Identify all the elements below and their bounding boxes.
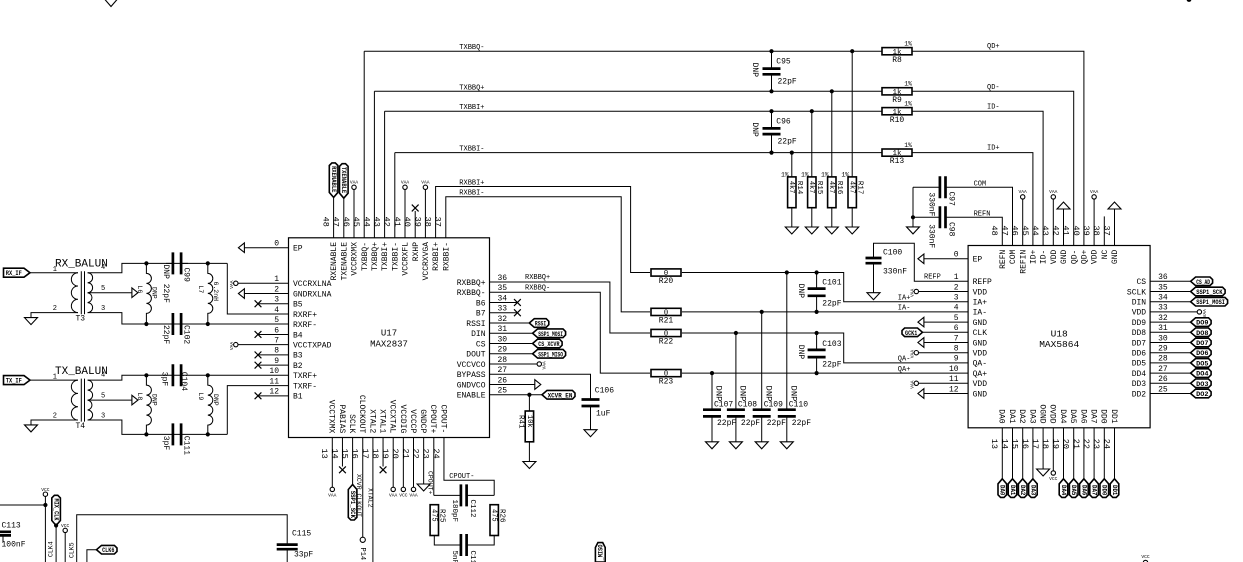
- junction: [769, 109, 773, 113]
- svg-text:8: 8: [954, 345, 959, 354]
- svg-text:C114: C114: [468, 551, 476, 562]
- net tag TXENABLE: [340, 164, 349, 199]
- svg-text:39: 39: [412, 217, 422, 227]
- svg-text:SSP1_MOSI: SSP1_MOSI: [538, 331, 563, 339]
- svg-text:VDD: VDD: [973, 350, 988, 359]
- resistor R25 475: [430, 505, 438, 536]
- svg-text:GNDVCO: GNDVCO: [457, 381, 486, 390]
- no-connect pin14: [339, 466, 346, 473]
- net tag DA6: [1080, 479, 1089, 498]
- svg-text:DNP: DNP: [714, 386, 723, 402]
- wire net ID+: [912, 153, 1033, 246]
- svg-text:VAA: VAA: [389, 493, 398, 499]
- wire stub pin40 RXHP: [414, 211, 416, 238]
- svg-text:RXBBI-: RXBBI-: [459, 190, 484, 198]
- net tag SSP1_MISO: [533, 349, 566, 358]
- wire stub pin3: [258, 303, 289, 305]
- svg-text:VCCVCO: VCCVCO: [457, 361, 486, 370]
- wire: [912, 217, 914, 227]
- junction: [760, 310, 764, 314]
- svg-text:SCLK: SCLK: [1127, 288, 1146, 297]
- svg-text:22pF: 22pF: [741, 419, 760, 428]
- svg-text:5: 5: [954, 314, 959, 323]
- wire pin20 DA5: [1073, 428, 1075, 479]
- port TX_IF: [4, 376, 31, 385]
- wire RX_IF to T3 pin1: [30, 272, 78, 274]
- wire stub pin34 B6: [490, 302, 518, 304]
- svg-text:24: 24: [431, 449, 441, 459]
- svg-text:B5: B5: [293, 301, 303, 310]
- svg-text:QA-: QA-: [898, 356, 911, 364]
- wire: [811, 111, 813, 177]
- svg-text:TXBBI+: TXBBI+: [459, 104, 484, 112]
- wire pin20 VCCDIG: [402, 438, 404, 488]
- loop filter node wires: [434, 494, 461, 496]
- svg-text:GND: GND: [973, 390, 988, 399]
- wire pin35 SCLK: [1150, 291, 1191, 293]
- svg-text:TXBBQ-: TXBBQ-: [361, 242, 370, 271]
- svg-text:XTAL2: XTAL2: [366, 488, 373, 508]
- wire R25 bottom: [434, 536, 461, 546]
- svg-text:6: 6: [274, 326, 279, 335]
- svg-text:4k7: 4k7: [848, 181, 856, 194]
- svg-text:13: 13: [319, 449, 329, 459]
- svg-text:RXBBQ+: RXBBQ+: [457, 279, 486, 288]
- resistor R13 1k: [882, 149, 912, 156]
- ground arrow at T3 pin5: [132, 288, 138, 298]
- svg-text:CPOUT-: CPOUT-: [438, 404, 447, 433]
- wire pin2 GNDRXLNA: [244, 293, 288, 295]
- svg-text:VAA: VAA: [541, 361, 547, 370]
- svg-text:GND: GND: [973, 339, 988, 348]
- svg-text:17: 17: [1030, 439, 1040, 449]
- svg-text:R22: R22: [659, 338, 674, 347]
- svg-text:XTAL1: XTAL1: [377, 409, 386, 433]
- svg-text:VCCRXFL: VCCRXFL: [402, 242, 411, 276]
- svg-text:VCCRXMX: VCCRXMX: [351, 242, 360, 276]
- svg-text:VCC: VCC: [399, 493, 408, 499]
- svg-text:R16: R16: [835, 181, 843, 195]
- capacitor C103 DNP 22pF: [816, 333, 818, 350]
- svg-text:GND: GND: [1111, 250, 1120, 265]
- svg-text:TXBBI+: TXBBI+: [381, 242, 390, 271]
- wire stub pin8: [258, 354, 289, 356]
- power VAA U18 pin46: [1021, 195, 1025, 199]
- svg-text:4k7: 4k7: [827, 181, 835, 194]
- wire pin22 DA7: [1093, 428, 1095, 479]
- svg-text:XCVR_EN: XCVR_EN: [548, 392, 573, 400]
- svg-text:15: 15: [339, 449, 349, 459]
- net tag CLK6: [87, 550, 97, 562]
- svg-text:DD8: DD8: [1132, 329, 1147, 338]
- wire pin23 CPOUT+: [433, 438, 435, 496]
- wire pin28 DD5: [1150, 362, 1191, 364]
- transformer T4 secondary winding: [88, 380, 93, 420]
- svg-text:TX_BALUN: TX_BALUN: [55, 366, 108, 378]
- wire pin6 CLK: [923, 331, 969, 333]
- svg-text:QA+: QA+: [898, 366, 911, 374]
- svg-text:DNP: DNP: [796, 345, 805, 360]
- svg-text:CLK6: CLK6: [102, 547, 115, 554]
- wire pin22 GNDCP: [423, 438, 425, 485]
- wire pin39 VCCRXVGA: [424, 190, 426, 238]
- wire pin25 DD2: [1150, 393, 1191, 395]
- ground under C100: [867, 293, 880, 300]
- svg-text:DD6: DD6: [1132, 350, 1147, 359]
- svg-text:XTAL2: XTAL2: [367, 409, 376, 433]
- svg-text:29: 29: [1158, 345, 1168, 354]
- junction at MIX_CLK tip: [54, 523, 58, 527]
- svg-text:GND: GND: [973, 319, 988, 328]
- svg-text:22pF: 22pF: [822, 299, 841, 308]
- svg-text:DNP: DNP: [750, 63, 759, 78]
- wire pin18 OVDD: [1052, 428, 1054, 471]
- svg-text:C100: C100: [883, 248, 902, 257]
- svg-text:XCVR_CLKOUT: XCVR_CLKOUT: [355, 474, 362, 517]
- svg-text:C115: C115: [292, 529, 311, 538]
- svg-text:CS_AD: CS_AD: [1196, 279, 1210, 286]
- svg-text:QD+: QD+: [987, 43, 1000, 51]
- wire stub pin9: [258, 364, 289, 366]
- capacitor C96 DNP 22pF: [771, 111, 773, 128]
- ground at pin26: [535, 380, 541, 390]
- wire net RXBBQ-: [490, 292, 651, 373]
- svg-text:DO9: DO9: [1196, 320, 1209, 327]
- junction: [785, 270, 789, 274]
- wire EP pin 0: [244, 247, 288, 249]
- svg-text:QA+: QA+: [973, 370, 988, 379]
- wire pin44 riser TXBBQ+: [373, 91, 375, 238]
- wire: [851, 51, 853, 177]
- svg-text:3: 3: [274, 296, 279, 305]
- wire: [528, 395, 530, 411]
- svg-text:R13: R13: [890, 157, 905, 166]
- net tag RSSI: [529, 319, 549, 328]
- svg-text:EP: EP: [973, 256, 983, 265]
- svg-text:26: 26: [1158, 375, 1168, 384]
- svg-text:1%: 1%: [904, 41, 912, 48]
- svg-text:GNDRXLNA: GNDRXLNA: [293, 290, 332, 299]
- resistor R23 0ohm: [651, 370, 681, 377]
- svg-text:4: 4: [101, 372, 105, 380]
- svg-text:4: 4: [274, 306, 279, 315]
- svg-text:33: 33: [1158, 304, 1168, 313]
- svg-text:REFP: REFP: [924, 274, 941, 282]
- svg-text:19: 19: [1050, 439, 1060, 449]
- transformer T3 secondary winding: [88, 273, 93, 313]
- wire net RXBBI-: [446, 197, 650, 312]
- svg-text:25: 25: [1158, 385, 1168, 394]
- ground under C108: [729, 442, 742, 449]
- wire net RXBBI+: [436, 187, 650, 273]
- svg-text:330nF: 330nF: [926, 224, 935, 248]
- net tag DA4: [1059, 479, 1068, 498]
- svg-text:DNP 22pF: DNP 22pF: [161, 265, 170, 304]
- svg-text:VDD: VDD: [1091, 250, 1100, 265]
- svg-text:2: 2: [53, 305, 57, 313]
- svg-text:IA-: IA-: [973, 309, 987, 318]
- wire T3 pin4 / RX top rail: [88, 263, 228, 272]
- svg-text:DO7: DO7: [1196, 340, 1209, 347]
- svg-text:24: 24: [1101, 439, 1111, 449]
- svg-text:OVDD: OVDD: [1048, 404, 1057, 423]
- svg-text:47: 47: [999, 226, 1009, 236]
- wire net CLK4: [55, 526, 57, 562]
- svg-text:VAA: VAA: [328, 493, 337, 499]
- net tag CS_XCVR: [533, 339, 563, 348]
- ground at U18 pin7: [918, 338, 924, 348]
- resistor R21 0ohm: [651, 308, 681, 315]
- wire pin17 OGND: [1042, 428, 1044, 469]
- svg-text:C112: C112: [468, 500, 476, 518]
- junction: [144, 322, 148, 326]
- svg-text:18: 18: [1040, 439, 1050, 449]
- svg-text:43: 43: [1040, 226, 1050, 236]
- svg-text:VAA: VAA: [229, 280, 235, 289]
- power VAA pin41: [403, 185, 407, 189]
- wire: [286, 549, 288, 562]
- svg-text:ID-: ID-: [987, 104, 1000, 112]
- ground at pin22: [417, 484, 430, 491]
- wire pin29 DOUT: [490, 353, 533, 355]
- wire R21 to IA-: [682, 311, 968, 313]
- svg-text:2: 2: [53, 413, 57, 421]
- svg-text:TXRF-: TXRF-: [293, 382, 317, 391]
- wire pin1 VCCRXLNA: [238, 282, 289, 284]
- svg-text:VCCTXPAD: VCCTXPAD: [293, 341, 332, 350]
- svg-text:DO4: DO4: [1196, 371, 1209, 378]
- svg-text:TXBBI-: TXBBI-: [391, 242, 400, 271]
- wire stub pin14: [341, 438, 343, 467]
- svg-text:29: 29: [498, 346, 508, 355]
- net tag DD6: [1191, 348, 1212, 357]
- wire pin14 DA1: [1012, 428, 1014, 479]
- svg-text:22pF: 22pF: [161, 325, 170, 344]
- svg-text:DA5: DA5: [1068, 409, 1077, 424]
- power VAA U18 pin39: [1092, 195, 1096, 199]
- svg-text:DA1: DA1: [1007, 409, 1016, 424]
- svg-text:R9: R9: [892, 96, 902, 105]
- wire TX_IF to T4 pin1: [30, 379, 78, 381]
- svg-text:VAA: VAA: [401, 179, 410, 185]
- inductor L6 DNP: [146, 263, 151, 324]
- svg-text:DO8: DO8: [1196, 330, 1209, 337]
- ground at U18 pin17: [1037, 469, 1050, 476]
- net tag SSP1_MOSI right: [1191, 297, 1228, 306]
- wire net TXBBQ+ row: [374, 90, 882, 92]
- net tag DA2: [1018, 479, 1027, 498]
- svg-text:VCCTXMX: VCCTXMX: [327, 400, 336, 434]
- svg-text:27: 27: [498, 366, 508, 375]
- svg-text:DA3: DA3: [1029, 485, 1036, 496]
- svg-text:330nF: 330nF: [926, 192, 935, 216]
- svg-text:R8: R8: [892, 56, 902, 65]
- svg-text:DOUT: DOUT: [466, 351, 485, 360]
- power VAA U18 pin43: [1051, 195, 1055, 199]
- net tag DD4: [1191, 369, 1212, 378]
- svg-text:TXBBQ+: TXBBQ+: [459, 84, 484, 92]
- wire pin30 CS: [490, 343, 533, 345]
- svg-text:DA4: DA4: [1060, 485, 1067, 496]
- svg-text:TXRF+: TXRF+: [293, 372, 317, 381]
- ground at U17 EP: [238, 243, 244, 253]
- wire pin48: [333, 197, 335, 237]
- net tag GCK1: [902, 328, 923, 337]
- svg-text:MAX5864: MAX5864: [1039, 339, 1079, 350]
- svg-text:B1: B1: [293, 393, 303, 402]
- svg-text:R26: R26: [497, 509, 505, 523]
- ground under R17: [846, 227, 859, 234]
- wire pin7 VCCTXPAD: [238, 344, 289, 346]
- svg-text:4k7: 4k7: [787, 181, 795, 194]
- svg-text:475: 475: [430, 509, 438, 522]
- svg-text:DIN: DIN: [471, 330, 486, 339]
- svg-text:SSP1_SCK: SSP1_SCK: [1196, 289, 1223, 297]
- svg-text:9: 9: [954, 355, 959, 364]
- svg-text:DA0: DA0: [999, 485, 1006, 496]
- svg-text:3pF: 3pF: [161, 436, 170, 451]
- svg-text:DD3: DD3: [1132, 380, 1147, 389]
- net tag DD9: [1191, 318, 1212, 327]
- svg-text:RX_BALUN: RX_BALUN: [55, 259, 108, 271]
- svg-text:CS_XCVR: CS_XCVR: [538, 341, 560, 349]
- wire pin19 DA4: [1063, 428, 1065, 479]
- svg-text:9: 9: [274, 357, 279, 366]
- svg-text:20: 20: [390, 449, 400, 459]
- wire net COM: [946, 187, 1013, 245]
- junction: [43, 503, 47, 507]
- svg-text:NC: NC: [1101, 250, 1110, 260]
- svg-text:40: 40: [1071, 226, 1081, 236]
- svg-text:C103: C103: [822, 340, 841, 349]
- svg-text:46: 46: [1010, 226, 1020, 236]
- no-connect pin9: [255, 362, 262, 369]
- wire pin43 VDD: [1052, 199, 1054, 246]
- svg-text:34: 34: [1158, 294, 1168, 303]
- transformer T3 core: [81, 271, 84, 314]
- svg-text:32: 32: [498, 315, 508, 324]
- svg-text:C97: C97: [947, 192, 956, 207]
- svg-text:C109: C109: [764, 401, 783, 410]
- svg-text:B3: B3: [293, 352, 303, 361]
- svg-text:100nF: 100nF: [2, 541, 26, 550]
- svg-text:RXENABLE: RXENABLE: [330, 242, 339, 281]
- ground under C106: [584, 430, 597, 437]
- svg-text:34: 34: [498, 294, 508, 303]
- svg-text:IA+: IA+: [898, 295, 911, 303]
- svg-text:31: 31: [1158, 324, 1168, 333]
- wire pin11 VDD: [919, 382, 969, 384]
- svg-text:12: 12: [269, 388, 279, 397]
- svg-text:5nF: 5nF: [450, 551, 458, 562]
- net tag DD2: [1191, 389, 1212, 398]
- svg-text:28: 28: [1158, 355, 1168, 364]
- svg-text:CPOUT+: CPOUT+: [427, 471, 434, 495]
- wire net CLK5/long horizontal to C115: [77, 515, 288, 562]
- power VAA U18 pin33: [1197, 310, 1201, 314]
- power VCC bottom-left 2: [63, 528, 67, 532]
- svg-text:VAA: VAA: [409, 493, 418, 499]
- junction: [790, 151, 794, 155]
- svg-text:DO6: DO6: [1196, 350, 1209, 357]
- wire net QD-: [912, 91, 1074, 245]
- svg-text:1%: 1%: [904, 101, 912, 108]
- svg-text:CLK4: CLK4: [48, 541, 55, 557]
- svg-text:DO2: DO2: [1196, 391, 1209, 398]
- svg-text:R20: R20: [659, 277, 674, 286]
- svg-text:2: 2: [274, 285, 279, 294]
- svg-text:42: 42: [382, 217, 392, 227]
- net tag DD1: [1110, 479, 1119, 498]
- wire stub pin6: [258, 333, 289, 335]
- wire: [44, 496, 46, 505]
- wire pin25 ENABLE: [490, 394, 543, 396]
- svg-text:16: 16: [350, 449, 360, 459]
- junction: [144, 373, 148, 377]
- svg-text:22: 22: [1081, 439, 1091, 449]
- svg-text:14: 14: [329, 449, 339, 459]
- svg-text:22pF: 22pF: [792, 419, 811, 428]
- svg-text:DA3: DA3: [1027, 409, 1036, 424]
- svg-text:22: 22: [411, 449, 421, 459]
- svg-text:VCCDIG: VCCDIG: [398, 404, 407, 433]
- svg-text:B2: B2: [293, 362, 303, 371]
- svg-text:3: 3: [101, 412, 105, 420]
- svg-text:DD2: DD2: [1132, 390, 1147, 399]
- svg-text:VDD: VDD: [1050, 250, 1059, 265]
- power VAA pin21: [411, 487, 415, 491]
- svg-text:4k7: 4k7: [807, 181, 815, 194]
- ground at U18 pin5: [918, 317, 924, 327]
- svg-text:GNDCP: GNDCP: [418, 409, 427, 433]
- junction: [815, 270, 819, 274]
- svg-text:1%: 1%: [841, 171, 849, 178]
- capacitor C97 330nF: [913, 186, 940, 188]
- wire pin24 net CPOUT-: [444, 438, 494, 496]
- wire pin28 VCCVCO: [490, 363, 538, 365]
- svg-text:DA2: DA2: [1017, 409, 1026, 424]
- svg-text:L6: L6: [136, 286, 143, 294]
- wire pin8 VDD: [919, 352, 969, 354]
- net tag DD7: [1191, 338, 1212, 347]
- junction: [206, 261, 210, 265]
- svg-text:0: 0: [954, 251, 959, 260]
- svg-text:QD-: QD-: [1070, 250, 1079, 264]
- net tag DA5: [1069, 479, 1078, 498]
- wire pin42 riser TXBBI-: [394, 153, 396, 238]
- transformer T3 primary winding: [71, 273, 78, 313]
- junction: [734, 331, 738, 335]
- op-amp U17 MAX2837 body: [289, 238, 490, 438]
- svg-text:45: 45: [1020, 226, 1030, 236]
- svg-text:47: 47: [331, 217, 341, 227]
- svg-text:ID+: ID+: [987, 145, 1000, 153]
- capacitor C110 DNP 22pF: [786, 273, 788, 410]
- svg-text:QA-: QA-: [973, 360, 987, 369]
- svg-text:VCC: VCC: [41, 487, 50, 493]
- ground under R14: [785, 227, 798, 234]
- svg-text:3: 3: [954, 294, 959, 303]
- svg-text:VCCXTAL: VCCXTAL: [388, 400, 397, 434]
- wire pin30 DD7: [1150, 342, 1191, 344]
- svg-text:22pF: 22pF: [778, 78, 797, 87]
- svg-text:27: 27: [1158, 365, 1168, 374]
- net tag SSP1_MOSI: [533, 329, 566, 338]
- wire pin17 XTAL2: [372, 438, 374, 562]
- svg-text:R25: R25: [438, 509, 446, 523]
- net tag DD8: [1191, 328, 1212, 337]
- svg-text:38: 38: [422, 217, 432, 227]
